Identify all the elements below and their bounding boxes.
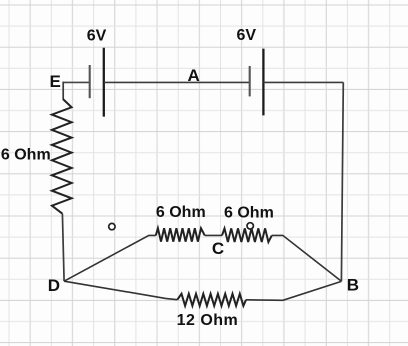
junction marker circle on resistor R3 <box>247 223 253 229</box>
wire resistor R4 to node B <box>246 281 341 300</box>
svg-text:6 Ohm: 6 Ohm <box>156 204 206 221</box>
wire resistor R3 to node B <box>272 235 342 281</box>
wire E to battery V1 <box>63 81 90 83</box>
wire A: battery V1 to battery V2 <box>104 81 250 83</box>
svg-text:E: E <box>50 72 61 91</box>
battery V1 negative plate <box>89 65 91 98</box>
svg-text:6 Ohm: 6 Ohm <box>224 205 274 222</box>
svg-text:12 Ohm: 12 Ohm <box>177 312 239 329</box>
resistor R2 zigzag 6 Ohm left <box>156 228 205 241</box>
svg-text:6 Ohm: 6 Ohm <box>1 147 51 164</box>
battery V2 negative plate <box>249 66 251 96</box>
svg-text:A: A <box>188 66 200 85</box>
wire node D up-right to resistor R2 <box>64 235 156 281</box>
junction marker circle on D-R2 branch <box>109 223 115 229</box>
resistor R4 zigzag 12 Ohm <box>177 294 246 306</box>
wire node D to resistor R4 <box>64 281 177 300</box>
svg-text:D: D <box>48 276 60 295</box>
wire resistor R1 to node D <box>62 214 64 282</box>
svg-text:6V: 6V <box>237 27 257 44</box>
wire node E down to resistor R1 <box>62 82 64 100</box>
battery V2 positive plate <box>262 49 264 116</box>
resistor R1 zigzag 6 Ohm vertical <box>52 99 72 214</box>
wire battery V2 to top-right corner <box>263 81 343 83</box>
wire resistor R2 to resistor R3 (node C) <box>205 234 222 236</box>
resistor R3 zigzag 6 Ohm right <box>222 228 272 242</box>
battery V1 positive plate <box>103 48 105 117</box>
wire right side down to node B <box>341 82 343 281</box>
svg-text:6V: 6V <box>87 27 107 44</box>
svg-text:B: B <box>347 275 359 294</box>
svg-text:C: C <box>212 239 224 258</box>
